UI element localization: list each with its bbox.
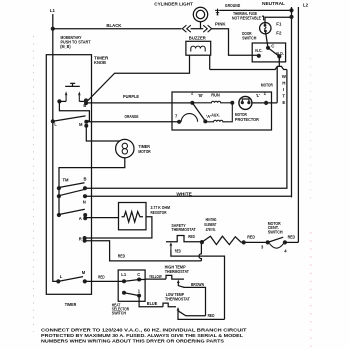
node aux contact	[203, 119, 207, 123]
svg-text:L: L	[54, 121, 57, 126]
svg-text:AUX.: AUX.	[211, 112, 220, 117]
decorative page edge dots left	[33, 36, 35, 332]
svg-text:T: T	[282, 94, 285, 99]
svg-text:RED: RED	[288, 234, 296, 239]
note bottom paragraph	[41, 328, 247, 344]
svg-text:BUZZER: BUZZER	[189, 36, 207, 41]
switch momentary push-to-start button	[65, 83, 80, 86]
wire fuse to door switch common	[265, 31, 268, 48]
svg-text:NUMBERS WHEN WRITING ABOUT THI: NUMBERS WHEN WRITING ABOUT THIS DRYER OR…	[41, 338, 224, 343]
svg-text:RED: RED	[98, 274, 105, 279]
node M of timer knob	[84, 120, 88, 124]
wire fuse to neutral	[265, 17, 292, 25]
coil aux winding	[205, 103, 232, 122]
node L1 rail tap	[51, 119, 55, 123]
node neutral-ground junction	[289, 8, 293, 12]
wire selector arm L1-C	[124, 280, 139, 282]
node TM contacts	[57, 186, 61, 190]
svg-text:L: L	[60, 274, 63, 279]
svg-text:'B': 'B'	[198, 93, 203, 98]
svg-text:RESISTOR: RESISTOR	[151, 210, 168, 215]
svg-text:M: M	[79, 122, 83, 127]
wire buzzer right lead to door plug	[209, 55, 211, 69]
svg-text:1: 1	[138, 288, 141, 293]
wire white rail to timer B	[85, 70, 287, 189]
svg-text:A: A	[79, 216, 82, 221]
svg-text:W: W	[282, 74, 287, 79]
svg-text:2: 2	[191, 90, 194, 95]
wire element to centrifugal switch	[241, 241, 267, 243]
svg-text:R: R	[79, 236, 82, 241]
node timer N contact	[83, 194, 87, 198]
wire switch arm L to M	[53, 116, 86, 121]
svg-text:F1: F1	[276, 21, 282, 26]
svg-text:7: 7	[175, 113, 178, 118]
svg-text:BROWN: BROWN	[191, 282, 204, 287]
svg-text:B: B	[83, 103, 86, 108]
node neutral-fuse junction	[289, 15, 293, 19]
wire hop over crossing	[199, 242, 201, 261]
timer motor	[116, 139, 134, 157]
svg-text:L2: L2	[303, 3, 309, 8]
svg-text:C: C	[271, 44, 275, 49]
node R contacts	[83, 236, 87, 240]
svg-text:RED: RED	[175, 249, 182, 254]
connector left chevrons	[182, 25, 191, 32]
svg-text:C: C	[137, 272, 140, 277]
svg-text:TM: TM	[63, 177, 70, 182]
svg-text:THERMOSTAT: THERMOSTAT	[165, 269, 189, 274]
wire timer arm TM-N	[59, 189, 85, 195]
wire protector to terminal 1	[252, 102, 277, 104]
svg-text:L1: L1	[121, 272, 127, 277]
svg-text:PURPLE: PURPLE	[123, 94, 139, 99]
node B of timer knob	[84, 98, 88, 102]
label momentary push to start	[60, 35, 90, 49]
connector right chevrons	[203, 25, 212, 32]
svg-text:F2: F2	[276, 31, 282, 36]
svg-text:N.C.: N.C.	[255, 48, 262, 53]
node M bottom contact	[83, 279, 87, 283]
wire N.O. to connector bump	[278, 56, 280, 66]
wire white vertical to motor terminal 1	[276, 66, 278, 102]
wire selector arm lower	[124, 293, 139, 296]
wire M to timer motor	[86, 126, 120, 141]
svg-text:WHITE: WHITE	[176, 192, 192, 197]
svg-text:4750 W.: 4750 W.	[206, 227, 216, 232]
svg-text:RUN: RUN	[211, 92, 220, 97]
node run-aux junction	[230, 101, 234, 105]
wire safety stat to thermostats output	[171, 250, 225, 320]
wire lamp stem	[200, 22, 202, 29]
svg-text:BLUE: BLUE	[147, 301, 158, 306]
connector door plug bump	[210, 66, 287, 69]
motor box	[172, 92, 272, 130]
svg-text:RED: RED	[208, 313, 215, 318]
svg-text:PINK: PINK	[215, 22, 226, 27]
svg-text:GROUND: GROUND	[225, 3, 241, 8]
svg-text:BLACK: BLACK	[106, 23, 122, 28]
wire BLUE selector 1 to low temp stat	[139, 296, 163, 307]
switch heat selector	[118, 270, 145, 301]
wire A to resistor	[85, 217, 118, 219]
svg-text:ORANGE: ORANGE	[125, 114, 139, 119]
node L bottom contact	[56, 279, 60, 283]
wire PINK to door switch N.C.	[212, 29, 259, 56]
wire centrifugal 4 to L2	[285, 241, 299, 243]
box timer / timer knob	[46, 55, 91, 295]
wire between connectors	[191, 28, 204, 30]
net WHITE vertical label	[282, 74, 287, 105]
node motor terminal 7	[177, 120, 181, 124]
node motor terminal 1	[264, 101, 268, 105]
wire motor switch arm 2 to aux	[192, 103, 205, 121]
wire neutral rail	[291, 7, 293, 197]
wire resistor output to R	[85, 217, 152, 238]
node motor terminal 2	[190, 101, 194, 105]
decorative page edge dots right	[310, 58, 312, 348]
wire BROWN high temp output	[178, 283, 205, 316]
wire L2 rail	[297, 7, 299, 242]
svg-text:MOTOR: MOTOR	[261, 83, 273, 88]
wire timer motor to TM rail	[59, 158, 125, 215]
node timer A contact	[83, 213, 87, 217]
svg-text:NOT RESETABLE: NOT RESETABLE	[232, 15, 261, 20]
svg-text:'L': 'L'	[256, 93, 261, 98]
wire low temp arm to brown junction	[179, 311, 206, 316]
wire door switch arm C to N.O.	[268, 48, 279, 57]
svg-text:3: 3	[261, 245, 264, 250]
node push-to-start left contact	[57, 99, 61, 103]
wire L1 rail	[53, 14, 59, 281]
wire centrifugal arc in motor	[181, 114, 197, 122]
wire timer arm TM-B	[59, 183, 85, 188]
motor protector	[239, 96, 252, 109]
node L1 junction	[51, 27, 55, 31]
svg-text:TIMER: TIMER	[65, 302, 77, 307]
svg-text:CYLINDER LIGHT: CYLINDER LIGHT	[154, 2, 193, 7]
wire PURPLE B to motor 2	[86, 102, 194, 104]
svg-text:I: I	[283, 87, 284, 92]
svg-text:SWITCH: SWITCH	[242, 35, 256, 40]
svg-text:YELLOW: YELLOW	[149, 274, 162, 279]
svg-text:E: E	[282, 100, 285, 105]
wire right arrow to node B	[79, 100, 86, 102]
svg-text:SWITCH: SWITCH	[268, 230, 283, 235]
svg-text:B: B	[84, 177, 87, 182]
svg-text:PROTECTOR: PROTECTOR	[235, 117, 260, 122]
wire YELLOW selector C to high temp stat	[139, 278, 166, 280]
svg-text:PROTECTED BY MAXIMUM 30 A. FUS: PROTECTED BY MAXIMUM 30 A. FUSED. ALWAYS…	[41, 333, 243, 338]
wire timer arm TM-A	[59, 209, 85, 214]
svg-text:L1: L1	[50, 8, 56, 13]
svg-text:KNOB: KNOB	[94, 60, 106, 65]
wire left contact to arrow	[59, 100, 66, 102]
svg-text:CONNECT DRYER TO 120/240 V.A.C: CONNECT DRYER TO 120/240 V.A.C., 60 HZ. …	[41, 328, 247, 333]
wire N to neutral (WHITE)	[85, 195, 292, 197]
wire ground to neutral	[220, 9, 292, 11]
wire low temp pivot to red bottom	[178, 311, 225, 320]
node timer B contact	[83, 186, 87, 190]
wire RED R to heating element junction	[85, 241, 202, 261]
svg-text:NEUTRAL: NEUTRAL	[262, 1, 285, 6]
wire BLACK top	[53, 28, 182, 30]
wire ORANGE M to motor 7	[86, 121, 179, 123]
wire timer arm L-M bottom	[58, 277, 83, 282]
svg-text:RED: RED	[188, 234, 195, 239]
svg-text:SWITCH: SWITCH	[112, 311, 126, 316]
svg-text:RED: RED	[247, 235, 255, 240]
wire buzzer left lead to timer knob B	[87, 55, 190, 101]
svg-text:4: 4	[284, 248, 287, 253]
svg-text:M: M	[82, 270, 86, 275]
resistor 3.77K	[119, 203, 147, 230]
svg-text:H: H	[282, 81, 285, 86]
svg-text:(M_B): (M_B)	[60, 44, 71, 49]
svg-text:N: N	[83, 199, 86, 204]
svg-text:THERMOSTAT: THERMOSTAT	[165, 296, 190, 301]
wire left contact to M	[59, 101, 89, 121]
svg-text:MOTOR: MOTOR	[138, 149, 151, 154]
wire centrifugal switch arm	[268, 237, 284, 242]
svg-text:RED: RED	[118, 254, 126, 259]
svg-text:THERMOSTAT: THERMOSTAT	[171, 227, 196, 232]
wire RED M to heat selector	[85, 280, 124, 282]
